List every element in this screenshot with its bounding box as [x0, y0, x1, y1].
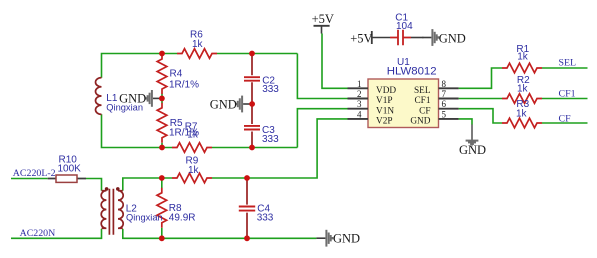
wire: L1 bottom to R7 left: [102, 114, 173, 147]
wire: +5V rail down to U1 pin 1 (VDD): [322, 34, 348, 89]
resistor R4 body: [157, 54, 167, 94]
svg-text:49.9R: 49.9R: [169, 213, 196, 224]
inductor L1: [96, 78, 102, 115]
capacitor C1: [390, 30, 411, 45]
resistor R2 body: [502, 94, 542, 104]
transformer L2 core: [109, 189, 113, 235]
power ground GND (C2/C3 midpoint): [236, 96, 252, 113]
capacitor C3: [244, 106, 260, 148]
svg-text:GND: GND: [119, 92, 146, 106]
power ground GND (right of C1): [422, 29, 438, 46]
resistor R9 body: [172, 173, 212, 183]
svg-text:GND: GND: [410, 117, 430, 127]
svg-text:CF1: CF1: [559, 88, 576, 99]
wire: U1 pin 7 (CF1) to R2: [459, 98, 502, 100]
junction: R4 / R6 / L1 top node: [159, 51, 165, 57]
svg-text:6: 6: [442, 99, 447, 109]
junction: C3 bottom node: [249, 145, 255, 151]
junction: C2/C3 ground node: [249, 101, 255, 107]
svg-text:GND: GND: [459, 143, 486, 157]
U1 pin 1 stub: [348, 87, 369, 89]
wire: R8 bottom stub: [161, 228, 163, 239]
U1 pin 3 stub: [348, 108, 369, 110]
svg-text:1k: 1k: [517, 83, 529, 94]
svg-text:7: 7: [442, 89, 447, 99]
junction: R8 bottom node: [159, 235, 165, 241]
svg-text:8: 8: [442, 79, 447, 89]
svg-text:CF: CF: [419, 106, 430, 116]
wire: net AC220L-2 to R10 left lead: [11, 178, 48, 180]
svg-text:4: 4: [357, 109, 362, 119]
U1 pin 7 stub: [439, 98, 459, 100]
wire: C1 to GND port: [411, 37, 423, 39]
wire: U1 pin 4 (V2P) down to R9 row: [212, 119, 348, 178]
svg-text:Qingxian: Qingxian: [126, 213, 163, 223]
wire: R1 to net SEL: [542, 67, 588, 69]
wire: R3 to net CF: [542, 122, 588, 124]
svg-text:1k: 1k: [188, 165, 200, 176]
svg-text:1k: 1k: [192, 39, 204, 50]
svg-text:GND: GND: [210, 97, 237, 111]
svg-text:VDD: VDD: [376, 86, 396, 96]
resistor R10 leads: [48, 178, 86, 180]
svg-text:CF1: CF1: [414, 96, 430, 106]
transformer L2 polarity dot primary: [105, 187, 109, 191]
capacitor C4: [239, 178, 255, 238]
transformer L2 polarity dot secondary: [116, 187, 120, 191]
svg-text:AC220L-2: AC220L-2: [13, 168, 56, 179]
svg-text:3: 3: [357, 99, 362, 109]
junction: R8 top node: [159, 175, 165, 181]
svg-text:1: 1: [357, 79, 362, 89]
svg-text:CF: CF: [559, 113, 572, 124]
svg-text:R4: R4: [170, 69, 183, 80]
wire: U1 pin 6 (CF) down to R3: [459, 109, 502, 123]
wire: R5 bottom stub: [161, 143, 163, 148]
wire: R8 top stub: [161, 178, 163, 188]
power port +5V (at C1): [350, 31, 390, 45]
svg-text:333: 333: [262, 134, 279, 145]
svg-text:SEL: SEL: [414, 86, 431, 96]
power ground GND (bottom rail): [316, 230, 332, 247]
resistor R7 body: [172, 143, 212, 153]
svg-text:104: 104: [396, 21, 413, 32]
svg-text:GND: GND: [439, 31, 466, 45]
resistor R5 body: [157, 103, 167, 143]
power port +5V (top rail): [312, 12, 334, 33]
U1 pin 5 stub: [439, 118, 459, 120]
resistor R8 body: [157, 188, 167, 228]
wire: R10 right to L2 primary top: [86, 179, 102, 191]
junction: R5 / R7 bottom node: [159, 145, 165, 151]
svg-text:1R/1%: 1R/1%: [169, 79, 199, 90]
svg-text:HLW8012: HLW8012: [387, 66, 437, 78]
svg-text:V1N: V1N: [376, 106, 394, 116]
resistor R10 body: [56, 175, 77, 182]
svg-text:+5V: +5V: [312, 12, 334, 26]
earth ground below U1 pin 5: [466, 125, 479, 146]
power ground GND (R4/R5 midpoint): [146, 90, 162, 107]
svg-text:100K: 100K: [58, 164, 82, 175]
svg-text:333: 333: [257, 213, 274, 224]
svg-text:1k: 1k: [517, 52, 529, 63]
wire: L1 top to R6 left (node A top-left loop): [102, 54, 178, 78]
svg-text:2: 2: [357, 89, 362, 99]
U1 pin 8 stub: [439, 87, 459, 89]
junction: C4 top node: [244, 175, 250, 181]
svg-text:GND: GND: [333, 232, 360, 246]
wire: net AC220N to L2 primary bottom: [11, 229, 102, 238]
transformer L2 primary winding: [101, 191, 106, 229]
junction: C2 top node: [249, 51, 255, 57]
wire: R7 right through C3 bottom junction to corner: [212, 147, 297, 149]
op-amp/IC U1 HLW8012 body: [368, 79, 439, 128]
wire: R4/R5 middle node stub: [161, 94, 163, 104]
wire: U1 pin 5 (GND) to ground symbol: [459, 119, 472, 125]
svg-text:1k: 1k: [187, 129, 199, 140]
U1 pin 2 stub: [348, 98, 369, 100]
wire: R2 to net CF1: [542, 98, 588, 100]
svg-text:AC220N: AC220N: [20, 228, 56, 239]
junction: C4 bottom node: [244, 235, 250, 241]
U1 pin 6 stub: [439, 108, 459, 110]
capacitor C2: [244, 54, 260, 103]
resistor R1 body: [502, 63, 542, 73]
wire: L2 secondary bottom to GND arrow: [123, 229, 317, 238]
U1 pin 4 stub: [348, 118, 369, 120]
transformer L2 secondary winding: [118, 191, 123, 229]
wire: R9 left to L2 secondary top: [123, 178, 172, 191]
wire: corner up to U1 pin 3 (V1N): [297, 109, 347, 148]
wire: U1 pin 8 (SEL) up to R1: [459, 68, 502, 88]
wire: loop right corner down to U1 pin 2 (V1P): [297, 54, 347, 99]
svg-text:+5V: +5V: [350, 31, 372, 45]
svg-text:5: 5: [442, 109, 447, 119]
svg-text:V1P: V1P: [376, 96, 393, 106]
resistor R3 body: [502, 118, 542, 128]
svg-text:1k: 1k: [516, 108, 528, 119]
svg-text:333: 333: [262, 84, 279, 95]
resistor R6 body: [177, 49, 217, 59]
wire: R6 right through C2 top junction to loop right corner: [217, 53, 297, 55]
junction: R4/R5 ground node: [159, 96, 165, 102]
svg-text:SEL: SEL: [559, 58, 577, 69]
svg-text:V2P: V2P: [376, 117, 393, 127]
